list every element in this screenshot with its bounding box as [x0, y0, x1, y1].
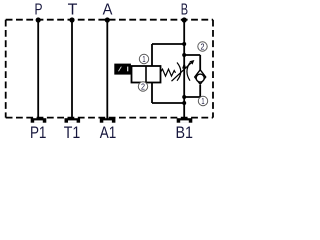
wire pilot loop left upper vertical	[151, 44, 153, 66]
callout circled 2 top right	[198, 42, 207, 52]
port T1 symbol	[65, 118, 81, 123]
wire check branch right lower vertical	[199, 85, 201, 97]
svg-text:B: B	[181, 2, 188, 19]
svg-text:B1: B1	[175, 123, 193, 139]
node P junction dot	[36, 17, 41, 22]
node junction dot at B check bottom	[182, 95, 186, 99]
callout circled 1 above valve	[139, 54, 148, 64]
node junction dot at B top loop	[182, 42, 186, 46]
wire check branch top horizontal	[184, 54, 200, 56]
svg-text:T1: T1	[64, 123, 81, 139]
svg-text:P1: P1	[30, 123, 47, 139]
wire B vertical	[183, 20, 185, 120]
solenoid actuator of V1	[114, 64, 131, 75]
valve V1 two-position body	[132, 66, 161, 83]
svg-text:A1: A1	[100, 123, 117, 139]
throttle flow arrowhead up	[182, 62, 186, 68]
throttle valve left arc	[177, 63, 181, 81]
wire check branch right upper vertical	[199, 55, 201, 70]
wire pilot loop top horizontal	[152, 43, 184, 45]
spring of V1	[160, 69, 175, 76]
throttle valve right arc	[187, 63, 190, 81]
check valve CV1	[195, 70, 206, 84]
svg-text:P: P	[35, 2, 43, 19]
wire pilot loop bottom horizontal	[152, 102, 184, 104]
node T junction dot	[69, 17, 74, 22]
wire A vertical	[106, 20, 108, 120]
node junction dot at B bottom loop	[182, 101, 186, 105]
port A1 symbol	[100, 118, 116, 123]
port P1 symbol	[31, 118, 47, 123]
wire P vertical	[37, 20, 39, 120]
svg-text:2: 2	[201, 42, 205, 51]
wire check branch bottom horizontal	[184, 96, 200, 98]
svg-text:T: T	[68, 2, 78, 19]
svg-text:1: 1	[142, 55, 146, 64]
node junction dot at B check top	[182, 53, 186, 57]
manifold block dashed enclosure	[6, 20, 213, 118]
port B1 symbol	[177, 118, 193, 123]
wire pilot loop left lower vertical	[151, 83, 153, 104]
svg-text:A: A	[103, 2, 113, 19]
callout circled 1 bottom right	[198, 96, 207, 106]
svg-text:1: 1	[201, 97, 205, 106]
throttle adjustment arrow diagonal	[172, 60, 195, 81]
node B junction dot	[182, 17, 187, 22]
wire T vertical	[71, 20, 73, 120]
node A junction dot	[105, 17, 110, 22]
svg-text:2: 2	[141, 82, 145, 91]
callout circled 2 below valve	[138, 82, 147, 92]
